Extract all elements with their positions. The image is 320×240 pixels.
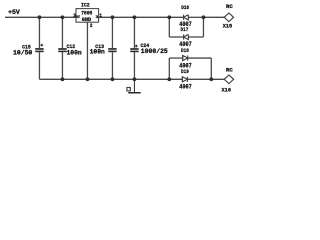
- svg-text:X15: X15: [223, 23, 233, 30]
- svg-text:IC2: IC2: [81, 2, 90, 9]
- svg-text:RC: RC: [226, 3, 233, 10]
- svg-text:D19: D19: [181, 68, 189, 75]
- svg-text:X16: X16: [222, 87, 232, 94]
- svg-text:1000/25: 1000/25: [141, 48, 168, 55]
- svg-text:IN: IN: [96, 15, 99, 19]
- svg-text:D16: D16: [181, 4, 189, 11]
- svg-text:10/50: 10/50: [13, 50, 33, 57]
- svg-text:+5V: +5V: [8, 9, 20, 16]
- svg-text:100n: 100n: [90, 49, 105, 56]
- svg-text:RC: RC: [226, 66, 233, 73]
- svg-text:D17: D17: [181, 26, 189, 33]
- svg-text:2: 2: [90, 22, 93, 29]
- svg-text:4007: 4007: [179, 84, 192, 91]
- svg-text:100n: 100n: [67, 50, 82, 57]
- svg-text:OUT: OUT: [76, 15, 80, 19]
- svg-text:D18: D18: [181, 47, 189, 54]
